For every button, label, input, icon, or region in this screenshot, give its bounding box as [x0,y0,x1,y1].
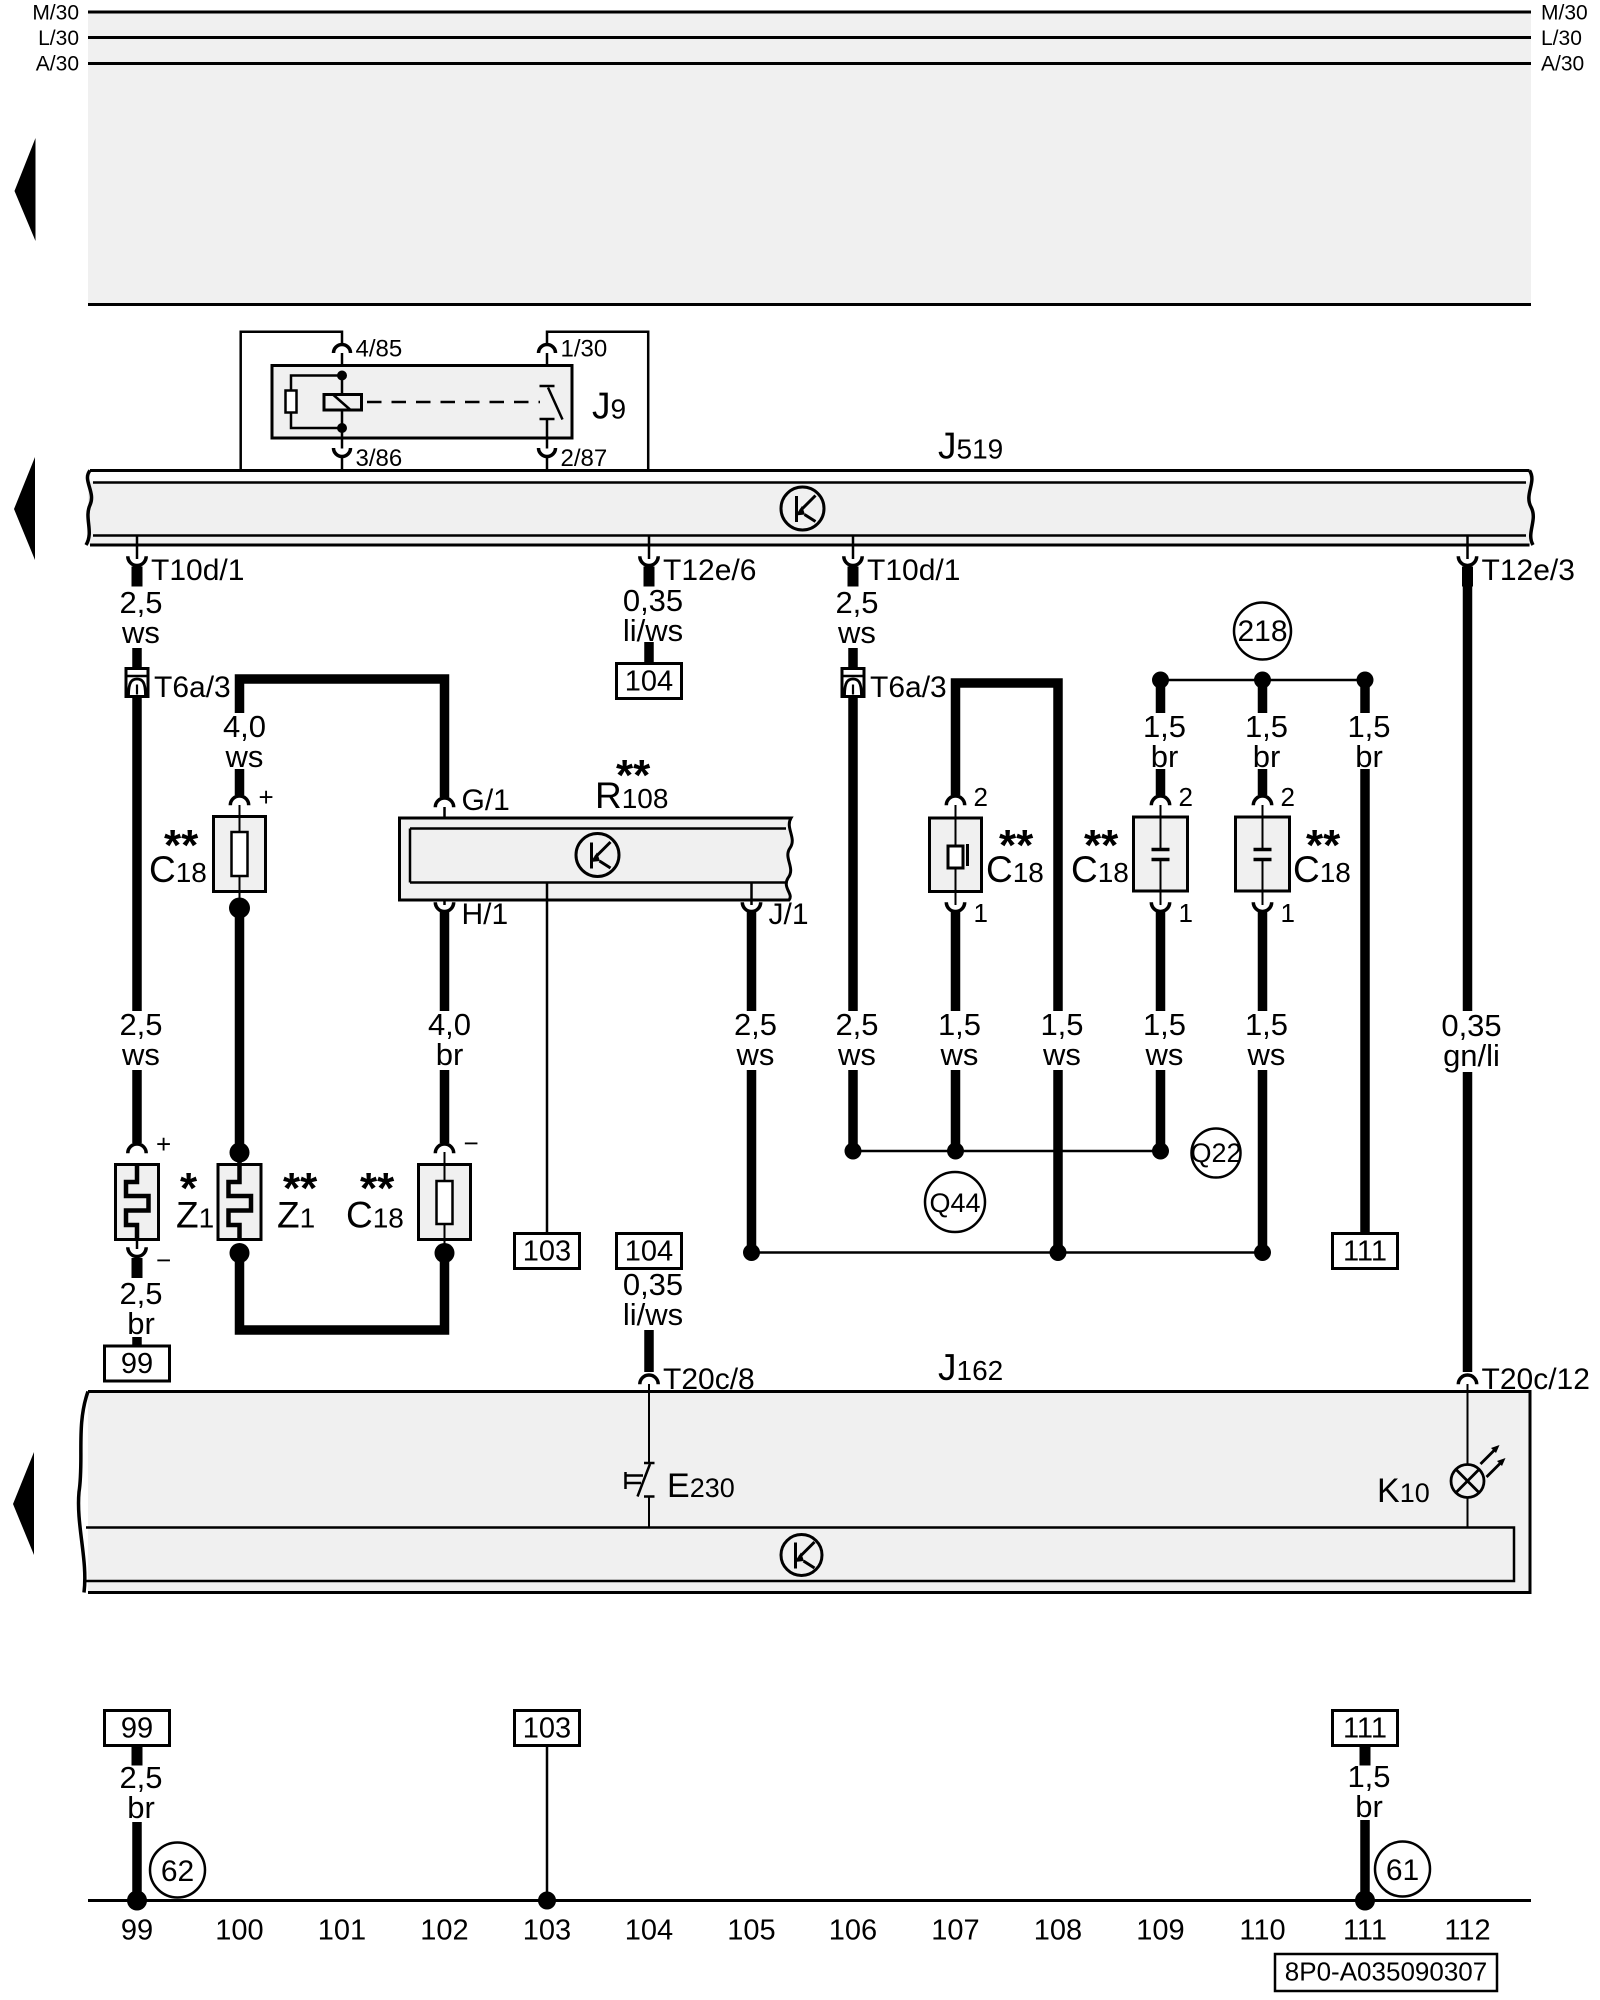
svg-text:104: 104 [625,1915,673,1947]
pin T10d/1 under J519 [136,536,139,559]
pin 1 of C18 F [1151,902,1169,911]
svg-text:+: + [156,1129,171,1159]
connector T6a/3 left [126,669,148,697]
svg-text:107: 107 [931,1915,979,1947]
svg-text:103: 103 [523,1915,571,1947]
wire col 111 stub from 218 row [1360,680,1370,713]
connection box 99 mid [105,1346,170,1381]
J162 torn left edge [79,1392,88,1593]
junction dot relay bottom [337,423,347,433]
J519 torn right edge [1529,471,1533,546]
databus symbol in J162 [781,1535,822,1576]
pin sleeve below box 111 [1360,1746,1371,1766]
wire col 107 below C18 E [951,912,961,1011]
svg-text:Q22: Q22 [1190,1138,1241,1168]
wire col 111 long to box 111 [1360,769,1370,1234]
ground symbol circle 61 [1375,1842,1430,1897]
svg-text:br: br [1253,739,1281,774]
wire M/30 [88,11,1531,14]
switch E230 contact top [644,1462,655,1465]
wire pin 2/87 to J519 [546,457,549,471]
suppression capacitor C18 A [214,817,266,892]
ground connection 218 circle [1234,603,1291,660]
J162 inner band [86,1528,1514,1582]
svg-text:−: − [464,1128,479,1158]
pin G/1 connector [435,798,453,807]
svg-text:111: 111 [1343,1236,1387,1268]
svg-text:1: 1 [1179,898,1193,928]
pin 2/87 connector [539,448,556,457]
wire H/1 from R108 [443,883,446,906]
wire col 106 long [848,697,858,1012]
wire col 106 upper [848,648,858,669]
continuation arrow left top [15,138,36,241]
switch E230 actuator [626,1472,644,1489]
svg-text:T6a/3: T6a/3 [154,671,231,704]
svg-text:T10d/1: T10d/1 [151,554,244,587]
svg-text:G/1: G/1 [462,784,510,817]
svg-text:62: 62 [161,1855,194,1888]
wire col 105 below J/1 [747,912,757,1011]
wire col 104 to box 104 [644,642,654,664]
svg-text:3/86: 3/86 [356,445,403,472]
svg-text:L/30: L/30 [1541,27,1582,50]
continuation arrow left bottom [13,1452,34,1555]
svg-text:112: 112 [1444,1915,1490,1947]
wire col 110 stub from 218 row [1258,680,1268,713]
wire pin 4/85 to relay body [341,353,344,366]
svg-text:2: 2 [974,782,988,812]
wire J/1 from R108 [750,883,753,906]
svg-text:104: 104 [625,666,673,698]
svg-text:2/87: 2/87 [561,445,608,472]
band bottom edge [88,303,1531,306]
junction dot col 106 row1 [845,1143,862,1160]
pin H/1 connector [435,902,453,911]
continuation arrow left middle [14,457,35,560]
pin 1 of C18 E [946,902,964,911]
junction dot ground 111 [1355,1891,1375,1911]
wire col 110 to C18 G [1258,769,1268,795]
svg-text:4/85: 4/85 [356,336,403,363]
pin 4/85 connector [334,345,351,354]
relay internal resistor [286,391,297,413]
databus symbol in J519 [781,487,824,530]
svg-text:li/ws: li/ws [623,1297,683,1332]
wire from relay pin 1/30 to J519 [547,332,648,482]
pin sleeve below box 99 [132,1746,143,1766]
ground symbol circle 62 [150,1843,205,1898]
wire col 102 below H/1 [440,912,450,1011]
svg-text:ws: ws [121,615,160,650]
junction dot col 110 row2 [1254,1244,1271,1261]
current track base line [88,1899,1531,1902]
pin T12e/3 under J519 [1466,536,1469,559]
ground wire row 218 [1161,679,1366,682]
svg-text:br: br [436,1037,464,1072]
pin 2 of C18 E [946,796,964,805]
junction dot ground 103 [538,1892,556,1910]
wire col 112 lower [1463,1072,1473,1372]
svg-text:T10d/1: T10d/1 [867,554,960,587]
svg-text:103: 103 [523,1236,571,1268]
svg-text:106: 106 [829,1915,877,1947]
svg-text:8P0-A035090307: 8P0-A035090307 [1285,1957,1487,1987]
svg-text:99: 99 [121,1348,153,1380]
databus symbol in R108 [576,834,619,877]
svg-text:br: br [127,1790,155,1825]
suppression capacitor C18 F [1134,817,1188,891]
svg-text:ws: ws [837,615,876,650]
junction dot col 109 row1 [1152,1143,1169,1160]
wire col 110 below C18 G [1258,912,1268,1011]
wire K10 to ground band [1467,1498,1469,1528]
suppression capacitor C18 D [419,1165,471,1240]
switch E230 lever [638,1464,651,1497]
wire relay coil to pin 3/86 [341,428,344,449]
diagram number box [1275,1954,1497,1991]
junction dot col 110 top [1254,672,1271,689]
J519 torn left edge [86,471,92,546]
wire L/30 [88,36,1531,39]
pin T10d/1 under J519 [852,536,855,559]
svg-text:E230: E230 [667,1467,735,1505]
wire col 104 to T20c/8 [644,1330,654,1372]
junction dot col 111 top [1357,672,1374,689]
suppression capacitor C18 G [1236,817,1290,891]
wire col 99 long [132,697,142,1012]
relay coil center wire [341,376,344,429]
svg-text:101: 101 [318,1915,366,1947]
svg-text:T12e/3: T12e/3 [1482,554,1575,587]
svg-text:L/30: L/30 [38,27,79,50]
switch E230 contact bottom [644,1495,655,1498]
svg-text:ws: ws [940,1037,979,1072]
svg-text:100: 100 [215,1915,263,1947]
wire col 109 to C18 F [1156,769,1166,795]
wire col 99 upper [132,648,142,669]
svg-text:108: 108 [1034,1915,1082,1947]
pin T20c/8 connector [640,1375,658,1384]
svg-text:M/30: M/30 [32,2,79,25]
wire bridge cols 107-108 [956,683,1059,1011]
svg-text:104: 104 [625,1236,673,1268]
wire T20c/8 into J162 [648,1384,650,1462]
svg-text:H/1: H/1 [462,898,509,931]
pin T12e/6 under J519 [648,536,651,559]
svg-text:61: 61 [1386,1854,1419,1887]
pin T20c/12 connector [1458,1375,1476,1384]
pin J/1 connector [742,902,760,911]
heater element Z1 mid [218,1165,261,1240]
junction dot above Z1 mid [230,1143,250,1163]
wire from J519 to relay J9 pin 4/85 [241,332,342,470]
connector T6a/3 right [842,669,864,697]
svg-text:T6a/3: T6a/3 [870,671,947,704]
pin 2 of C18 G [1253,796,1271,805]
svg-text:110: 110 [1239,1915,1285,1947]
wire col 109 to Q22 row [1156,1070,1166,1151]
svg-text:111: 111 [1343,1713,1387,1745]
junction dot ground 99 [127,1891,147,1911]
svg-text:1: 1 [1281,898,1295,928]
svg-text:103: 103 [523,1713,571,1745]
wire col 99 to Z1 [132,1070,142,1143]
pin 1 of C18 G [1253,902,1271,911]
pin sleeve below Z1 [132,1258,143,1278]
connection box 103 bottom [515,1711,580,1746]
relay switch contact bottom [540,418,555,421]
wire box 103 to ground rail [546,1746,549,1901]
svg-text:+: + [259,782,274,812]
junction dot col 109 top [1152,672,1169,689]
svg-text:1: 1 [974,898,988,928]
control unit J162 heater [88,1392,1530,1593]
junction dot below C18 D [435,1243,455,1263]
connection box 99 bottom [105,1711,170,1746]
wire col 100 to C18 [235,769,245,795]
svg-text:ws: ws [1247,1037,1286,1072]
indicator lamp K10 [1451,1450,1501,1498]
junction dot col 107 row1 [947,1143,964,1160]
wire U-link cols 100-102 [240,1253,445,1330]
connection box 104 mid [617,1234,682,1269]
relay coil branch wires [291,376,342,392]
heater element Z1 left [116,1165,159,1240]
pin 1/30 connector [539,345,556,354]
svg-text:ws: ws [121,1037,160,1072]
wire col 100 down to Z1 [235,908,245,1153]
svg-text:br: br [127,1306,155,1341]
wire col 106 to Q22 row [848,1070,858,1151]
R108 inner box [410,829,786,883]
svg-text:−: − [156,1245,171,1275]
wire T20c/12 into J162 [1467,1384,1469,1465]
svg-text:99: 99 [121,1713,153,1745]
wire col 102 to C18 D [440,1070,450,1143]
wire col 109 stub from 218 row [1156,680,1166,713]
wire bridge cols 100-102 [240,679,445,797]
relay J9 body [272,366,572,439]
wire R108 tap to box 103 [546,883,549,1234]
svg-text:A/30: A/30 [36,53,79,76]
label circle Q22 [1192,1129,1241,1178]
svg-text:105: 105 [727,1915,775,1947]
relay coil [324,395,362,411]
pin - of C18 D [435,1144,453,1153]
plus connection row Q44 [752,1251,1263,1254]
svg-text:218: 218 [1237,615,1287,648]
connection box 111 bottom [1333,1711,1398,1746]
wire pin 3/86 to J519 [341,457,344,471]
relay switch contact top [540,385,555,388]
svg-text:Q44: Q44 [929,1188,980,1218]
pin - of Z1 [136,1239,139,1249]
svg-text:br: br [1355,739,1383,774]
svg-text:2: 2 [1179,782,1193,812]
wire relay switch to pin 2/87 [546,419,549,449]
connection box 104 top [617,664,682,699]
suppression capacitor C18 E electrolytic [930,818,982,892]
plus connection row Q22 [853,1150,1161,1153]
wire E230 to ground band [648,1497,650,1528]
wire col 112 long [1463,585,1473,1011]
junction dot below Z1 mid [230,1243,250,1263]
svg-text:M/30: M/30 [1541,2,1588,25]
label circle Q44 [925,1172,985,1232]
junction dot col 108 row2 [1050,1244,1067,1261]
heater unit R108 body [400,818,793,900]
svg-text:111: 111 [1343,1915,1387,1947]
svg-text:K10: K10 [1377,1472,1430,1510]
svg-text:gn/li: gn/li [1443,1038,1500,1073]
svg-text:br: br [1355,1789,1383,1824]
wire col 108 to Q44 row [1053,1070,1063,1253]
control unit J519 onboard supply [88,471,1531,546]
svg-text:br: br [1151,739,1179,774]
wire col 107 to Q22 row [951,1070,961,1151]
svg-text:102: 102 [420,1915,468,1947]
top rail band background [88,12,1531,305]
wire pin 1/30 to relay switch [546,353,549,386]
pin + of Z1 [128,1144,146,1153]
ground wire col 111 [1360,1820,1370,1900]
connection box 103 mid [515,1234,580,1269]
ground wire col 99 [132,1822,142,1900]
svg-text:ws: ws [837,1037,876,1072]
wire col 105 to Q44 row [747,1070,757,1253]
wire col 109 below C18 F [1156,912,1166,1011]
wire col 110 to Q44 row [1258,1070,1268,1253]
pin 3/86 connector [334,448,351,457]
wire G/1 into R108 [443,807,446,829]
svg-text:ws: ws [1042,1037,1081,1072]
junction dot relay top [337,371,347,381]
svg-text:109: 109 [1136,1915,1184,1947]
svg-text:2: 2 [1281,782,1295,812]
svg-text:ws: ws [1145,1037,1184,1072]
relay dashed link [367,401,540,404]
wire A/30 [88,62,1531,65]
svg-text:J/1: J/1 [769,898,809,931]
relay switch lever [548,388,563,420]
svg-text:ws: ws [225,739,264,774]
svg-text:ws: ws [736,1037,775,1072]
connection box 111 mid [1333,1234,1398,1269]
junction dot under C18 A [229,898,250,919]
svg-text:1/30: 1/30 [561,336,608,363]
stub to box 99 [132,1337,142,1346]
pin 2 of C18 F [1151,796,1169,805]
junction dot col 105 row2 [743,1244,760,1261]
svg-text:A/30: A/30 [1541,53,1584,76]
pin + of C18 A [230,796,248,805]
svg-text:99: 99 [121,1915,153,1947]
